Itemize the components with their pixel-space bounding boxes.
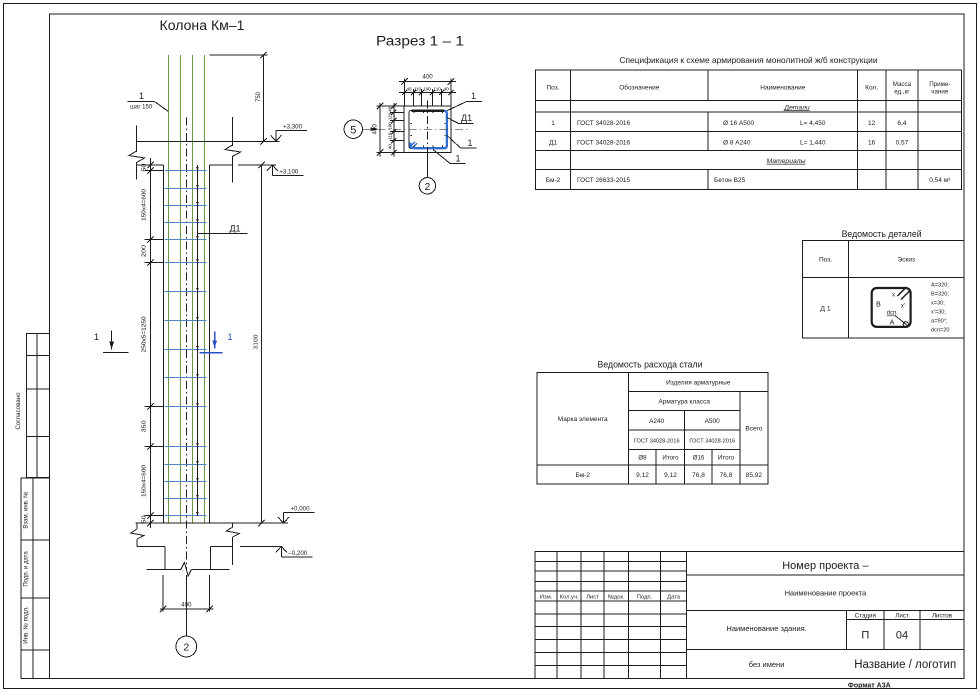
svg-text:Подп. и дата: Подп. и дата — [24, 551, 30, 587]
svg-text:Итого: Итого — [662, 455, 679, 462]
svg-text:Поз.: Поз. — [819, 257, 832, 264]
svg-text:40: 40 — [444, 87, 450, 92]
svg-text:Ø16: Ø16 — [693, 455, 705, 462]
svg-text:76,8: 76,8 — [720, 472, 733, 479]
svg-text:Эскиз: Эскиз — [898, 257, 915, 264]
svg-text:Взам. инв. №: Взам. инв. № — [23, 491, 30, 528]
svg-text:200: 200 — [142, 245, 148, 257]
svg-text:А=320;: А=320; — [931, 283, 949, 289]
svg-text:Лист: Лист — [586, 595, 599, 601]
svg-text:Всего: Всего — [745, 426, 762, 433]
svg-text:Изм.: Изм. — [540, 595, 553, 601]
svg-text:Изделия арматурные: Изделия арматурные — [666, 379, 731, 386]
svg-text:1: 1 — [467, 138, 472, 148]
svg-text:Кол.: Кол. — [865, 85, 878, 92]
svg-text:ед.,кг: ед.,кг — [894, 89, 910, 96]
svg-text:Листов: Листов — [932, 612, 953, 619]
svg-text:110: 110 — [434, 87, 442, 92]
svg-text:5: 5 — [350, 124, 356, 136]
svg-text:6,4: 6,4 — [897, 120, 906, 127]
svg-text:100: 100 — [423, 87, 431, 92]
svg-text:без имени: без имени — [749, 660, 785, 669]
svg-text:А: А — [890, 320, 895, 327]
svg-text:110: 110 — [414, 87, 422, 92]
svg-text:110: 110 — [388, 132, 393, 140]
svg-text:L= 1,440: L= 1,440 — [800, 139, 826, 146]
svg-text:В=320;: В=320; — [931, 292, 949, 298]
svg-text:Наименование: Наименование — [760, 85, 805, 92]
svg-text:Поз.: Поз. — [547, 85, 560, 92]
svg-text:Номер проекта –: Номер проекта – — [782, 560, 869, 572]
svg-text:Стадия: Стадия — [855, 612, 876, 619]
svg-text:2: 2 — [183, 642, 189, 654]
svg-text:50: 50 — [142, 515, 148, 523]
svg-text:Согласовано: Согласовано — [15, 392, 22, 430]
svg-text:50: 50 — [142, 163, 148, 171]
svg-text:400: 400 — [372, 124, 379, 135]
svg-text:2: 2 — [424, 181, 430, 193]
svg-text:40: 40 — [388, 144, 393, 150]
svg-text:0,57: 0,57 — [896, 139, 909, 146]
svg-text:Арматура класса: Арматура класса — [658, 398, 710, 405]
svg-text:L= 4,450: L= 4,450 — [800, 120, 826, 127]
svg-text:Название / логотип: Название / логотип — [854, 659, 956, 671]
svg-text:3100: 3100 — [254, 335, 260, 350]
svg-text:x=30;: x=30; — [931, 301, 945, 307]
svg-text:шаг 150: шаг 150 — [130, 105, 153, 111]
svg-text:40: 40 — [407, 87, 413, 92]
svg-text:Обозначение: Обозначение — [619, 84, 660, 92]
svg-text:1: 1 — [94, 332, 99, 343]
svg-text:Инв. № подл.: Инв. № подл. — [23, 606, 30, 644]
svg-text:чание: чание — [931, 89, 949, 96]
svg-text:Разрез 1 – 1: Разрез 1 – 1 — [376, 34, 464, 49]
svg-text:Подп.: Подп. — [637, 595, 653, 601]
svg-text:Марка элемента: Марка элемента — [558, 416, 608, 423]
svg-text:Приме-: Приме- — [929, 81, 950, 88]
svg-text:Наименование проекта: Наименование проекта — [785, 589, 867, 598]
svg-text:B: B — [876, 302, 881, 309]
svg-text:04: 04 — [896, 630, 908, 642]
svg-text:α=90°;: α=90°; — [931, 319, 948, 325]
svg-text:Ø 8 А240: Ø 8 А240 — [723, 139, 751, 146]
svg-text:16: 16 — [868, 139, 876, 146]
svg-text:dсп: dсп — [887, 311, 897, 317]
svg-text:1: 1 — [551, 120, 555, 127]
svg-text:250х5=1250: 250х5=1250 — [142, 316, 148, 352]
svg-text:Материалы: Материалы — [766, 158, 805, 165]
svg-text:dсп=20: dсп=20 — [931, 328, 949, 334]
svg-text:А240: А240 — [649, 418, 665, 425]
svg-text:Итого: Итого — [718, 455, 735, 462]
svg-text:№док.: №док. — [608, 595, 625, 601]
svg-text:ГОСТ 34028-2016: ГОСТ 34028-2016 — [634, 438, 680, 444]
svg-text:40: 40 — [388, 106, 393, 112]
svg-text:Ø8: Ø8 — [638, 455, 647, 462]
svg-text:Бетон В25: Бетон В25 — [714, 177, 746, 184]
svg-text:Ø 16 А500: Ø 16 А500 — [723, 120, 754, 127]
svg-text:Наименование здания.: Наименование здания. — [726, 624, 806, 633]
svg-text:+0,000: +0,000 — [290, 505, 310, 512]
svg-text:–0,200: –0,200 — [288, 550, 307, 557]
svg-text:x: x — [892, 293, 895, 299]
svg-text:1: 1 — [455, 153, 460, 163]
svg-text:Бм-2: Бм-2 — [575, 472, 590, 479]
svg-text:Детали: Детали — [783, 104, 810, 111]
svg-text:Д 1: Д 1 — [820, 306, 830, 313]
svg-text:Дата: Дата — [667, 595, 681, 601]
svg-text:Спецификация к схеме армирован: Спецификация к схеме армирования монолит… — [620, 55, 878, 65]
svg-text:Бм-2: Бм-2 — [546, 177, 561, 184]
svg-text:А500: А500 — [705, 418, 721, 425]
svg-text:Д1: Д1 — [461, 113, 472, 123]
svg-text:1: 1 — [139, 91, 144, 101]
svg-text:x'=30;: x'=30; — [931, 310, 946, 316]
svg-text:Д1: Д1 — [229, 223, 240, 233]
svg-text:Ведомость деталей: Ведомость деталей — [842, 229, 922, 239]
svg-text:1: 1 — [227, 332, 232, 343]
svg-text:1: 1 — [471, 91, 476, 101]
svg-text:Д1: Д1 — [549, 139, 557, 146]
svg-text:ГОСТ 34028-2016: ГОСТ 34028-2016 — [577, 139, 631, 146]
svg-text:9,12: 9,12 — [664, 472, 677, 479]
svg-text:110: 110 — [388, 112, 393, 120]
svg-text:+3,100: +3,100 — [279, 169, 299, 176]
svg-text:750: 750 — [256, 91, 262, 102]
svg-text:100: 100 — [388, 122, 393, 130]
svg-text:150х4=600: 150х4=600 — [142, 189, 148, 221]
svg-text:350: 350 — [142, 420, 148, 432]
svg-text:ГОСТ 26633-2015: ГОСТ 26633-2015 — [577, 177, 631, 184]
svg-text:85,92: 85,92 — [746, 472, 763, 479]
svg-text:П: П — [861, 630, 869, 642]
svg-text:12: 12 — [868, 120, 876, 127]
svg-text:+3,300: +3,300 — [283, 124, 303, 131]
svg-text:Кол.уч.: Кол.уч. — [560, 595, 579, 601]
svg-text:Формат А3А: Формат А3А — [848, 683, 891, 690]
svg-text:Колона Км–1: Колона Км–1 — [160, 18, 245, 33]
svg-text:ГОСТ 34028-2016: ГОСТ 34028-2016 — [689, 438, 735, 444]
svg-text:x': x' — [901, 304, 905, 310]
svg-text:9,12: 9,12 — [636, 472, 649, 479]
svg-text:Масса: Масса — [893, 81, 912, 88]
svg-text:0,54 м³: 0,54 м³ — [929, 177, 951, 184]
svg-text:Ведомость расхода стали: Ведомость расхода стали — [598, 360, 703, 370]
svg-text:Лист: Лист — [895, 612, 909, 619]
svg-text:ГОСТ 34028-2016: ГОСТ 34028-2016 — [577, 120, 631, 127]
svg-text:400: 400 — [422, 74, 433, 81]
svg-text:150х4=600: 150х4=600 — [142, 465, 148, 497]
svg-text:76,8: 76,8 — [692, 472, 705, 479]
